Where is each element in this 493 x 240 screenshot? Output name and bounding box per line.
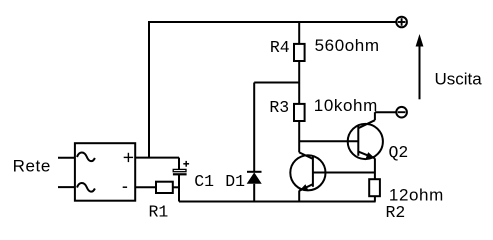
wire collector to minus terminal [375, 111, 396, 113]
wire top bus [149, 21, 396, 23]
wire left vertical drop [148, 21, 150, 158]
wire R4R3 junction to D1 branch [254, 82, 299, 84]
svg-text:560ohm: 560ohm [315, 36, 380, 55]
wire plus output row [135, 157, 179, 159]
wire base junction to Q2 [299, 140, 358, 142]
wire input bottom [58, 186, 75, 188]
svg-text:Uscita: Uscita [435, 70, 483, 89]
wire D1 branch upper [253, 83, 255, 173]
resistor R1 [156, 182, 173, 193]
resistor R3 [294, 104, 305, 121]
wire Q2 emitter to R2 [374, 158, 376, 179]
wire input top [58, 157, 75, 159]
wire cap top lead [178, 158, 180, 170]
svg-text:D1: D1 [225, 172, 245, 191]
sine symbol top [77, 152, 95, 161]
wire bottom bus [179, 201, 376, 203]
svg-text:10kohm: 10kohm [314, 96, 378, 115]
svg-text:Q2: Q2 [389, 143, 409, 162]
resistor R2 [369, 179, 380, 196]
wire R4 to R3 [298, 61, 300, 104]
capacitor C1 [173, 161, 189, 174]
transistor Q1 [290, 152, 325, 190]
transistor Q2 [348, 120, 383, 159]
svg-text:R2: R2 [386, 203, 406, 222]
plus mark in box [124, 153, 133, 162]
sine symbol bottom [77, 183, 95, 192]
output arrow Uscita [416, 34, 424, 99]
svg-text:R1: R1 [149, 203, 169, 222]
wire D1 branch lower [253, 184, 255, 202]
svg-text:R4: R4 [270, 38, 290, 57]
wire Q1 base to emitter node [313, 172, 375, 174]
wire cap bottom lead [178, 174, 180, 201]
wire R3 to Q1 collector [298, 121, 300, 152]
svg-text:12ohm: 12ohm [389, 186, 444, 205]
resistor R4 [294, 44, 305, 61]
minus mark in box [123, 186, 127, 188]
svg-text:Rete: Rete [13, 156, 51, 175]
rectifier bridge box [75, 143, 135, 201]
svg-text:C1: C1 [194, 172, 214, 191]
svg-text:R3: R3 [269, 98, 289, 117]
wire top bus to R4 [298, 22, 300, 44]
wire Q1 emitter to bus [298, 191, 300, 202]
terminal plus output [396, 17, 407, 28]
wire R1 to cap node [173, 186, 179, 188]
wire Q2 collector up [374, 112, 376, 120]
terminal minus output [396, 107, 407, 118]
wire minus output row [135, 186, 156, 188]
wire R2 to bus [374, 196, 376, 201]
diode D1 [247, 172, 262, 184]
